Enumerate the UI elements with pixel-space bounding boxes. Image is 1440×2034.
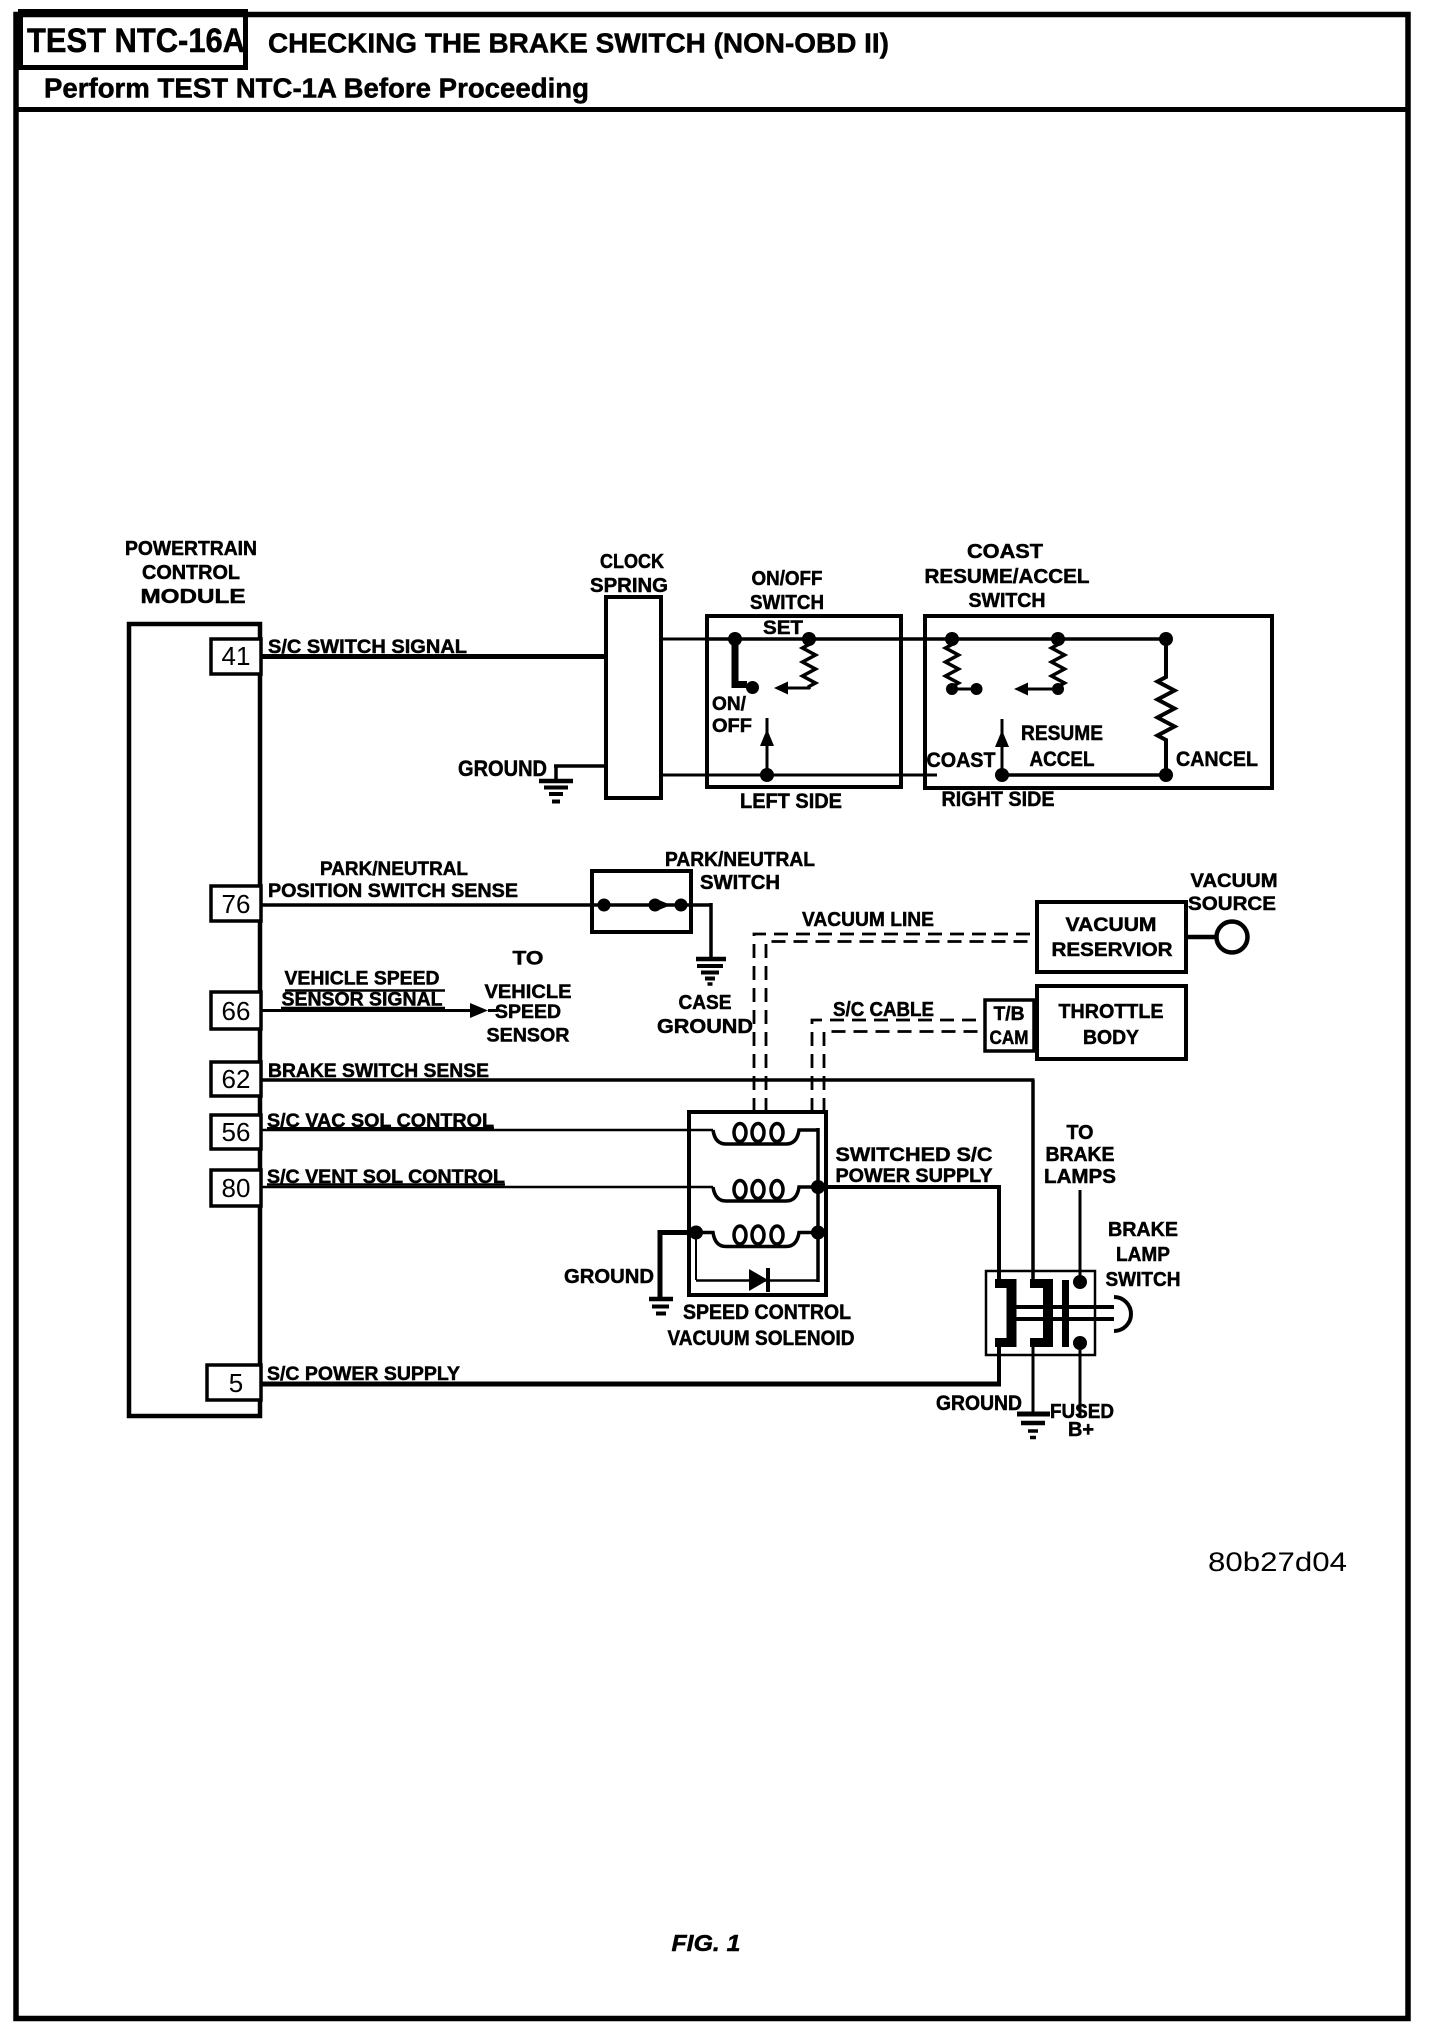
- svg-text:Perform TEST NTC-1A Before Pro: Perform TEST NTC-1A Before Proceeding: [44, 73, 589, 104]
- svg-text:BRAKE SWITCH SENSE: BRAKE SWITCH SENSE: [268, 1061, 489, 1082]
- svg-text:S/C VAC SOL CONTROL: S/C VAC SOL CONTROL: [267, 1111, 494, 1132]
- svg-text:RIGHT SIDE: RIGHT SIDE: [942, 787, 1055, 811]
- svg-text:VACUUM: VACUUM: [1191, 870, 1278, 892]
- svg-text:SENSOR SIGNAL: SENSOR SIGNAL: [282, 990, 443, 1011]
- svg-text:SPRING: SPRING: [590, 575, 668, 597]
- svg-text:SENSOR: SENSOR: [487, 1025, 570, 1047]
- svg-text:LAMP: LAMP: [1116, 1244, 1170, 1266]
- svg-text:CLOCK: CLOCK: [600, 551, 664, 573]
- svg-text:RESUME: RESUME: [1021, 722, 1103, 745]
- svg-text:SET: SET: [763, 617, 803, 639]
- svg-text:5: 5: [229, 1368, 243, 1398]
- svg-text:B+: B+: [1068, 1418, 1094, 1441]
- svg-text:TO: TO: [1067, 1122, 1094, 1144]
- svg-text:41: 41: [222, 641, 251, 671]
- svg-text:VEHICLE SPEED: VEHICLE SPEED: [285, 969, 440, 990]
- svg-text:VACUUM LINE: VACUUM LINE: [802, 909, 934, 931]
- svg-text:ON/: ON/: [712, 693, 747, 715]
- svg-text:POSITION SWITCH SENSE: POSITION SWITCH SENSE: [268, 881, 518, 902]
- svg-text:SWITCH: SWITCH: [969, 590, 1046, 612]
- svg-text:FIG. 1: FIG. 1: [672, 1930, 741, 1956]
- svg-text:CAM: CAM: [990, 1027, 1029, 1049]
- svg-text:GROUND: GROUND: [936, 1392, 1022, 1415]
- svg-text:CHECKING THE BRAKE SWITCH (NON: CHECKING THE BRAKE SWITCH (NON-OBD II): [268, 28, 889, 59]
- svg-text:SWITCHED S/C: SWITCHED S/C: [836, 1144, 993, 1166]
- svg-text:COAST: COAST: [967, 541, 1043, 563]
- svg-text:CANCEL: CANCEL: [1176, 747, 1258, 771]
- svg-text:PARK/NEUTRAL: PARK/NEUTRAL: [320, 859, 468, 880]
- svg-text:GROUND: GROUND: [458, 756, 547, 781]
- svg-text:CASE: CASE: [679, 992, 732, 1014]
- svg-text:SPEED CONTROL: SPEED CONTROL: [683, 1301, 851, 1324]
- svg-text:ACCEL: ACCEL: [1030, 748, 1095, 771]
- svg-text:VEHICLE: VEHICLE: [485, 981, 572, 1003]
- svg-text:VACUUM SOLENOID: VACUUM SOLENOID: [668, 1327, 855, 1350]
- svg-text:S/C CABLE: S/C CABLE: [833, 999, 934, 1021]
- svg-text:CONTROL: CONTROL: [142, 562, 240, 584]
- svg-text:RESERVIOR: RESERVIOR: [1052, 939, 1173, 961]
- svg-text:TO: TO: [513, 948, 544, 970]
- svg-text:T/B: T/B: [994, 1003, 1025, 1025]
- svg-text:PARK/NEUTRAL: PARK/NEUTRAL: [665, 849, 815, 871]
- svg-text:80b27d04: 80b27d04: [1208, 1547, 1347, 1577]
- svg-text:GROUND: GROUND: [657, 1016, 753, 1038]
- svg-text:80: 80: [222, 1173, 251, 1203]
- svg-text:76: 76: [222, 889, 251, 919]
- svg-text:BRAKE: BRAKE: [1108, 1219, 1178, 1241]
- svg-text:ON/OFF: ON/OFF: [752, 568, 823, 590]
- svg-text:SWITCH: SWITCH: [750, 592, 824, 614]
- svg-text:BRAKE: BRAKE: [1046, 1144, 1115, 1166]
- svg-text:S/C VENT SOL CONTROL: S/C VENT SOL CONTROL: [267, 1167, 505, 1188]
- svg-text:POWERTRAIN: POWERTRAIN: [125, 538, 257, 560]
- svg-text:COAST: COAST: [927, 748, 996, 772]
- svg-text:RESUME/ACCEL: RESUME/ACCEL: [925, 566, 1090, 588]
- svg-text:S/C POWER SUPPLY: S/C POWER SUPPLY: [267, 1363, 460, 1385]
- svg-text:THROTTLE: THROTTLE: [1059, 1001, 1164, 1023]
- svg-text:S/C SWITCH SIGNAL: S/C SWITCH SIGNAL: [268, 636, 467, 658]
- svg-text:SWITCH: SWITCH: [1106, 1269, 1181, 1291]
- svg-text:BODY: BODY: [1083, 1027, 1140, 1049]
- svg-text:LAMPS: LAMPS: [1044, 1166, 1116, 1188]
- svg-text:SPEED: SPEED: [495, 1001, 561, 1023]
- svg-text:LEFT SIDE: LEFT SIDE: [740, 789, 842, 813]
- svg-text:TEST NTC-16A: TEST NTC-16A: [27, 22, 245, 60]
- svg-text:MODULE: MODULE: [141, 586, 246, 608]
- svg-text:66: 66: [222, 996, 251, 1026]
- svg-text:SWITCH: SWITCH: [700, 872, 780, 894]
- svg-text:SOURCE: SOURCE: [1188, 893, 1276, 915]
- svg-text:GROUND: GROUND: [564, 1265, 654, 1288]
- svg-text:56: 56: [222, 1117, 251, 1147]
- svg-text:VACUUM: VACUUM: [1066, 914, 1157, 936]
- svg-text:POWER SUPPLY: POWER SUPPLY: [836, 1165, 993, 1187]
- svg-text:OFF: OFF: [712, 715, 752, 737]
- svg-text:62: 62: [222, 1064, 251, 1094]
